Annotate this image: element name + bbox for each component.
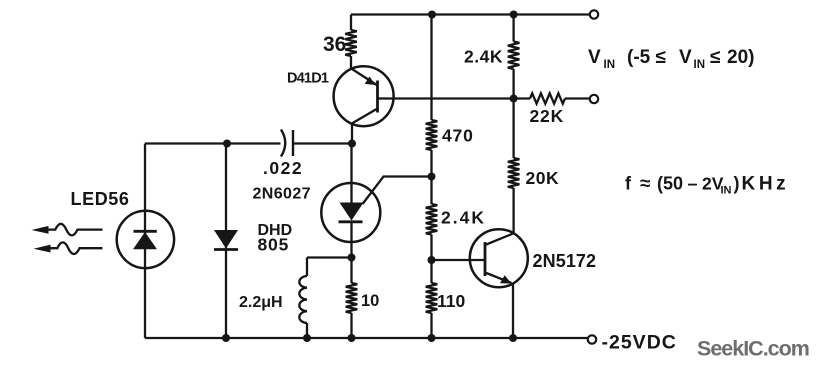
- svg-text:36: 36: [323, 33, 346, 56]
- svg-text:2N6027: 2N6027: [253, 186, 311, 203]
- svg-text:470: 470: [442, 126, 474, 146]
- svg-text:D41D1: D41D1: [287, 71, 329, 87]
- svg-text:2.4K: 2.4K: [464, 47, 503, 67]
- svg-text:2.4K: 2.4K: [441, 208, 486, 228]
- svg-text:-25VDC: -25VDC: [602, 332, 677, 354]
- svg-text:22K: 22K: [530, 106, 565, 126]
- svg-text:110: 110: [437, 291, 465, 311]
- svg-text:2.2μH: 2.2μH: [239, 294, 283, 311]
- svg-text:SeekIC.com: SeekIC.com: [697, 337, 809, 361]
- svg-text:805: 805: [258, 235, 290, 255]
- svg-text:20K: 20K: [526, 168, 560, 188]
- svg-text:.022: .022: [263, 158, 303, 178]
- svg-text:f≈(50–2VIN)KHz: f≈(50–2VIN)KHz: [625, 174, 789, 197]
- svg-text:LED56: LED56: [71, 189, 130, 209]
- svg-text:10: 10: [361, 292, 379, 310]
- svg-text:2N5172: 2N5172: [533, 251, 597, 271]
